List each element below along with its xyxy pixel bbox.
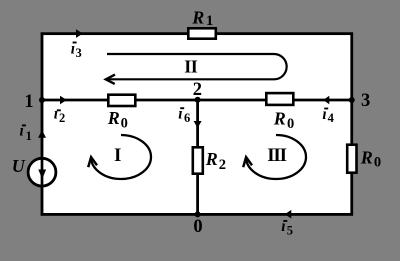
svg-text:2: 2 (219, 157, 226, 173)
loop I arrow (91, 135, 151, 179)
svg-text:ı: ı (54, 106, 58, 123)
svg-text:0: 0 (193, 217, 202, 237)
resistor R0 middle-right (266, 93, 293, 105)
loop III arrow (246, 135, 306, 179)
svg-text:U: U (12, 156, 26, 176)
svg-text:III: III (267, 145, 286, 166)
voltage source wire through (41, 158, 44, 186)
svg-text:R: R (360, 147, 373, 167)
node 0 (195, 211, 201, 217)
voltage source arrowhead (38, 170, 46, 180)
loop II arrow (106, 54, 286, 79)
resistor R1 (188, 28, 216, 38)
node 2 (195, 97, 201, 103)
svg-text:0: 0 (287, 116, 294, 132)
svg-text:R: R (273, 109, 286, 129)
arrow i3 on top wire (76, 29, 83, 38)
arrow i5 on bottom wire (285, 210, 292, 219)
svg-text:R: R (205, 149, 218, 169)
svg-text:I: I (114, 145, 121, 166)
node 3 (349, 97, 355, 103)
resistor R0 left (108, 95, 135, 106)
svg-text:2: 2 (193, 80, 202, 100)
voltage source U circle (28, 158, 56, 186)
svg-text:1: 1 (26, 129, 32, 143)
resistor R2 (193, 147, 203, 173)
svg-text:2: 2 (59, 111, 65, 125)
svg-text:6: 6 (184, 111, 190, 125)
wire middle horizontal 1-2-3 (41, 99, 354, 102)
svg-text:1: 1 (206, 13, 214, 29)
arrow i1 on left wire (38, 130, 46, 138)
circuit interior (42, 34, 352, 215)
svg-text:4: 4 (328, 111, 335, 125)
arrow i6 on vertical wire (194, 121, 202, 128)
wire outer loop rectangle (42, 34, 352, 215)
svg-text:3: 3 (76, 46, 82, 60)
svg-text:0: 0 (374, 155, 381, 171)
wire vertical 2-0 (196, 100, 199, 214)
resistor R0 right (347, 145, 356, 173)
svg-text:1: 1 (24, 92, 33, 112)
svg-text:R: R (107, 108, 120, 128)
svg-text:R: R (191, 8, 204, 28)
svg-text:3: 3 (361, 91, 370, 111)
svg-text:II: II (184, 56, 198, 76)
arrow i2 on middle wire (60, 96, 67, 105)
svg-text:5: 5 (287, 223, 293, 237)
arrow i4 on middle wire (323, 96, 329, 105)
node 1 (39, 97, 45, 103)
svg-text:0: 0 (121, 116, 128, 132)
